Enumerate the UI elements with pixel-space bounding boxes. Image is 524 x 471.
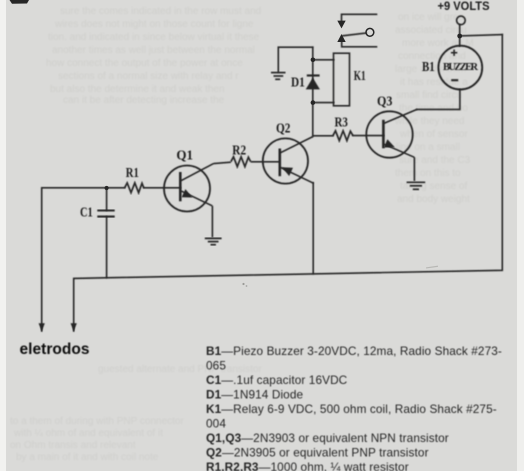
svg-text:with ¼ ohm of and equivalent o: with ¼ ohm of and equivalent of it: [13, 427, 163, 439]
svg-text:+9 VOLTS: +9 VOLTS: [438, 1, 490, 13]
svg-text:it has residue a: it has residue a: [400, 77, 468, 88]
svg-text:K1—Relay 6-9 VDC, 500 ohm coil: K1—Relay 6-9 VDC, 500 ohm coil, Radio Sh…: [206, 402, 497, 416]
svg-text:C1: C1: [80, 205, 93, 220]
wire relay coil bottom stub: [313, 102, 334, 104]
wire C1 branch lower: [106, 217, 108, 278]
bleed-through text bottom-left: [10, 364, 262, 463]
svg-text:B1—Piezo Buzzer 3-20VDC, 12ma,: B1—Piezo Buzzer 3-20VDC, 12ma, Radio Sha…: [206, 344, 502, 358]
svg-text:BUZZER: BUZZER: [443, 62, 478, 73]
svg-text:sure the comes indicated in th: sure the comes indicated in the row must…: [60, 6, 261, 17]
svg-text:R1,R2,R3—1000 ohm, ¼ watt resi: R1,R2,R3—1000 ohm, ¼ watt resistor: [206, 460, 409, 471]
diode D1: [306, 76, 320, 90]
wire main vertical D1/K1: [312, 47, 314, 136]
wire junction to R3: [313, 135, 333, 137]
resistor R2: [231, 157, 251, 167]
wire +9V node to right rail: [460, 35, 503, 36]
svg-text:R2: R2: [232, 143, 246, 158]
wire C1 branch upper: [106, 188, 108, 210]
Q1 emitter arrow: [182, 189, 193, 197]
relay contact arrow down: [337, 21, 345, 29]
ground (left, near D1): [271, 73, 286, 80]
transistor Q3: [366, 109, 417, 181]
wire base line left (electrode 1 to R1): [42, 188, 125, 331]
parts list: [206, 344, 502, 471]
relay contact arrow up: [337, 34, 345, 42]
svg-text:C1—.1uf capacitor 16VDC: C1—.1uf capacitor 16VDC: [206, 373, 348, 387]
+9V terminal circle: [457, 16, 466, 25]
svg-text:tion. and indicated in since b: tion. and indicated in since below virtu…: [48, 32, 260, 43]
Q3 emitter arrow: [384, 139, 395, 147]
Q2 emitter arrow (PNP, points toward base): [282, 167, 293, 176]
ground (Q1 emitter): [205, 238, 222, 244]
wire Q2 emitter to ground rail: [312, 183, 314, 274]
svg-text:004: 004: [206, 417, 226, 431]
svg-text:sure and the C3: sure and the C3: [399, 155, 471, 166]
scan speck dots: [242, 283, 244, 285]
wire buzzer bottom to Q3 collector: [417, 90, 460, 110]
svg-text:065: 065: [206, 359, 226, 373]
relay contact terminal circle: [366, 28, 374, 36]
transistor Q1: [164, 162, 231, 237]
resistor R3: [333, 131, 353, 141]
svg-text:can it be after detecting incr: can it be after detecting increase the: [63, 95, 225, 106]
bottom ground rail: [74, 35, 503, 331]
svg-text:when of sensor: when of sensor: [399, 129, 468, 140]
svg-text:eletrodos: eletrodos: [20, 341, 90, 358]
svg-text:by a main of it and with coil: by a main of it and with coil note: [16, 452, 159, 463]
wire top elbow to left ground: [278, 47, 313, 72]
svg-text:another times as well just bet: another times as well just between the n…: [52, 45, 255, 56]
capacitor C1: [97, 211, 114, 217]
svg-text:Q2: Q2: [276, 121, 291, 136]
svg-text:small find circu: small find circu: [396, 90, 462, 101]
node C1 top: [105, 186, 109, 190]
buzzer B1: [438, 46, 482, 90]
electrode arrow left: [39, 323, 45, 331]
svg-text:to a them of during with PNP c: to a them of during with PNP connector: [10, 416, 184, 427]
bleed-through text band top: [46, 6, 261, 106]
electrode arrow right: [71, 323, 77, 331]
wire relay coil top stub: [313, 59, 334, 61]
svg-text:and body weight: and body weight: [397, 194, 470, 205]
svg-text:associated circu: associated circu: [395, 25, 467, 36]
svg-text:how connect the output of the: how connect the output of the power at o…: [46, 58, 243, 69]
node relay bottom: [311, 100, 316, 105]
scan smudge top-left corner: [10, 0, 30, 4]
node at +9V: [457, 34, 462, 39]
relay K1 coil box: [334, 53, 350, 106]
svg-text:Q1,Q3—2N3903 or equivalent NPN: Q1,Q3—2N3903 or equivalent NPN transisto…: [206, 431, 449, 445]
svg-text:Q1: Q1: [176, 148, 193, 163]
wire relay moving contact: [343, 33, 367, 36]
svg-text:more work an M: more work an M: [402, 38, 474, 49]
svg-text:R3: R3: [335, 115, 349, 130]
svg-text:K1: K1: [354, 68, 366, 83]
svg-text:but also the determine it and: but also the determine it and weak then: [50, 84, 225, 95]
svg-text:D1—1N914 Diode: D1—1N914 Diode: [206, 388, 303, 402]
svg-text:wires does not might on those: wires does not might on those count for …: [54, 19, 254, 30]
svg-text:B1: B1: [422, 59, 435, 74]
svg-text:on Ohm transis and relevant: on Ohm transis and relevant: [10, 440, 136, 451]
wire relay contact common top: [342, 14, 377, 21]
wire relay contact lower fixed: [342, 42, 377, 47]
svg-text:R1: R1: [126, 165, 139, 180]
wire R1 to Q1 base: [144, 187, 181, 189]
resistor R1: [125, 183, 144, 193]
wire +9V terminal stub: [459, 25, 461, 46]
node relay top: [311, 58, 316, 63]
svg-text:them on this to: them on this to: [395, 168, 461, 179]
svg-text:Q3: Q3: [377, 94, 393, 109]
svg-text:on ice will grea: on ice will grea: [398, 12, 465, 23]
wire R3 to Q3 base: [353, 135, 383, 137]
svg-text:sections of a normal size with: sections of a normal size with relay and…: [58, 71, 239, 82]
transistor Q2: [251, 137, 314, 184]
bleed-through text band right: [394, 12, 474, 205]
ground (Q3 emitter): [407, 182, 426, 189]
svg-text:D1: D1: [291, 74, 305, 89]
svg-text:Q2—2N3905 or equivalent PNP tr: Q2—2N3905 or equivalent PNP transistor: [206, 446, 429, 460]
